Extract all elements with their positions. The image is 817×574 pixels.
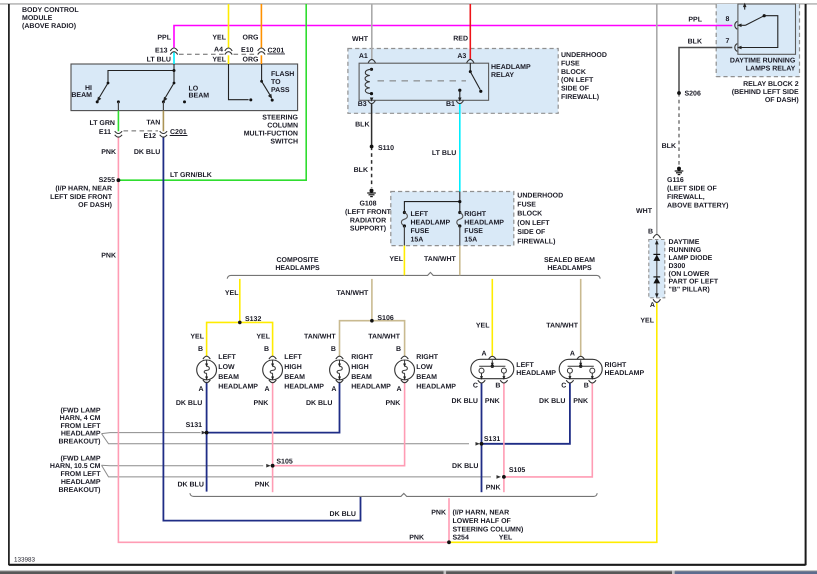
label LT BLU mid bbox=[432, 150, 456, 157]
svg-text:PNK: PNK bbox=[431, 510, 446, 517]
svg-text:BLK: BLK bbox=[688, 39, 702, 46]
svg-text:UNDERHOOD: UNDERHOOD bbox=[517, 192, 563, 199]
svg-text:ORG: ORG bbox=[243, 35, 260, 42]
splice S106 bbox=[370, 319, 374, 323]
label headlamp relay bbox=[491, 64, 531, 79]
label PNK right above bracket bbox=[486, 484, 501, 491]
svg-text:BLOCK: BLOCK bbox=[561, 69, 586, 76]
label PPL pin 8 bbox=[688, 16, 729, 24]
svg-text:DAYTIME RUNNING: DAYTIME RUNNING bbox=[730, 58, 796, 65]
svg-text:133983: 133983 bbox=[14, 557, 36, 564]
svg-text:BREAKOUT): BREAKOUT) bbox=[59, 486, 101, 494]
label YEL A4 bbox=[212, 35, 226, 64]
wire LT BLU below connector E13 bbox=[173, 52, 175, 64]
svg-text:BEAM: BEAM bbox=[284, 374, 305, 381]
svg-text:SIDE OF: SIDE OF bbox=[561, 86, 590, 93]
svg-text:(ABOVE RADIO): (ABOVE RADIO) bbox=[22, 22, 76, 30]
svg-text:HEADLAMP: HEADLAMP bbox=[61, 479, 101, 486]
wire YEL from diode A down to S254 bbox=[451, 303, 657, 542]
svg-text:LEFT: LEFT bbox=[516, 362, 534, 369]
svg-text:DK BLU: DK BLU bbox=[452, 463, 478, 470]
bulb left low beam headlamp bbox=[197, 356, 217, 383]
label underhood fuse block top bbox=[561, 52, 607, 101]
label HI BEAM bbox=[71, 85, 92, 99]
label PNK mid bbox=[101, 252, 116, 259]
svg-text:FUSE: FUSE bbox=[561, 60, 580, 67]
svg-text:RUNNING: RUNNING bbox=[669, 247, 702, 254]
svg-text:DK BLU: DK BLU bbox=[306, 400, 332, 407]
connector C201 cavity A4 bbox=[225, 48, 232, 55]
svg-text:SUPPORT): SUPPORT) bbox=[350, 225, 386, 233]
wire LT BLU from relay B1 to fuse block bbox=[459, 104, 461, 192]
wire RED to relay A3 bbox=[469, 4, 471, 59]
svg-text:B: B bbox=[198, 346, 203, 353]
svg-text:A: A bbox=[264, 386, 269, 393]
svg-text:PNK: PNK bbox=[254, 400, 269, 407]
splice S254 bbox=[447, 540, 451, 544]
label B1 bbox=[446, 101, 455, 108]
svg-text:(FWD LAMP: (FWD LAMP bbox=[60, 454, 100, 462]
splice S131 right bbox=[480, 442, 484, 446]
svg-text:15A: 15A bbox=[464, 237, 477, 244]
svg-text:RED: RED bbox=[453, 36, 468, 43]
svg-text:E13: E13 bbox=[155, 48, 168, 55]
wire PNK right low beam down to S105 line bbox=[273, 382, 405, 466]
label G108 left front radiator support bbox=[345, 201, 392, 233]
svg-text:TAN: TAN bbox=[146, 120, 160, 127]
svg-text:RIGHT: RIGHT bbox=[351, 354, 374, 361]
svg-text:BLOCK: BLOCK bbox=[517, 211, 542, 218]
connector C201 cavity E10 bbox=[258, 48, 265, 55]
svg-text:LT GRN/BLK: LT GRN/BLK bbox=[170, 171, 212, 179]
svg-text:LOWER HALF OF: LOWER HALF OF bbox=[453, 518, 512, 525]
label YEL to S132 bbox=[225, 290, 239, 297]
svg-text:S105: S105 bbox=[276, 458, 292, 465]
switch internal wire from LT BLU entry to HI/LO pivots bbox=[108, 64, 176, 83]
svg-text:PNK: PNK bbox=[485, 398, 500, 405]
wire DK BLU right sealed C down to right S131 bbox=[482, 383, 570, 444]
svg-text:WHT: WHT bbox=[352, 36, 369, 43]
svg-text:S131: S131 bbox=[484, 436, 500, 443]
wire DK BLU right high beam down to S131 line bbox=[207, 382, 340, 433]
svg-text:COMPOSITE: COMPOSITE bbox=[276, 257, 318, 264]
label steering column multi-fuction switch bbox=[244, 114, 299, 145]
hi beam switch arm bbox=[95, 82, 109, 104]
svg-text:HARN, 4 CM: HARN, 4 CM bbox=[60, 415, 101, 422]
svg-text:HEADLAMP: HEADLAMP bbox=[464, 220, 504, 227]
wire BLK from relay block 2 pin 7 to S206 then dashed to G116 bbox=[679, 48, 732, 166]
svg-text:BLK: BLK bbox=[662, 143, 676, 150]
svg-text:A1: A1 bbox=[359, 53, 368, 60]
daytime running lamps relay inner box bbox=[738, 4, 796, 54]
label S110 bbox=[378, 145, 394, 152]
label E11 bbox=[99, 129, 111, 136]
relay terminal B3 bbox=[368, 98, 375, 104]
svg-text:SEALED BEAM: SEALED BEAM bbox=[544, 257, 595, 264]
label DK BLU right mid bbox=[452, 463, 478, 470]
svg-text:YEL: YEL bbox=[225, 290, 239, 297]
svg-text:BEAM: BEAM bbox=[416, 374, 437, 381]
label I/P harn near left side front of dash bbox=[50, 184, 113, 209]
label C201 top bbox=[267, 48, 285, 55]
right headlamp fuse 15A bbox=[457, 211, 463, 228]
connector C201 cavity E13 bbox=[170, 48, 177, 55]
label E13 / LT BLU bbox=[147, 48, 171, 64]
label A1 bbox=[359, 53, 368, 60]
daytime running lamp diode pair bbox=[653, 240, 660, 298]
svg-text:C: C bbox=[473, 383, 478, 390]
daytime running lamp diode D300 box bbox=[649, 240, 665, 298]
svg-text:FIREWALL): FIREWALL) bbox=[517, 237, 555, 245]
label body control module bbox=[22, 7, 79, 30]
label left high beam headlamp bbox=[264, 346, 324, 393]
relay block 2 pin 7 terminal bbox=[735, 44, 737, 52]
svg-text:"B" PILLAR): "B" PILLAR) bbox=[669, 286, 710, 294]
label YEL under left fuse bbox=[389, 256, 403, 263]
svg-text:PART OF LEFT: PART OF LEFT bbox=[669, 279, 719, 286]
label composite headlamps bbox=[275, 257, 320, 272]
label DK BLU / PNK under composite bulbs bbox=[176, 400, 400, 407]
svg-text:TAN/WHT: TAN/WHT bbox=[304, 332, 336, 340]
label relay block 2 behind left side of dash bbox=[732, 81, 799, 104]
underhood fuse block (fuses) dashed box bbox=[391, 192, 514, 246]
label S131 right bbox=[484, 436, 500, 443]
label S106 bbox=[377, 315, 393, 322]
daytime running lamps relay switch bbox=[737, 3, 778, 50]
label E12 bbox=[144, 133, 157, 140]
svg-text:(LEFT FRONT: (LEFT FRONT bbox=[345, 208, 392, 216]
svg-text:PPL: PPL bbox=[688, 16, 702, 23]
svg-text:MULTI-FUCTION: MULTI-FUCTION bbox=[244, 131, 298, 138]
svg-text:HEADLAMP: HEADLAMP bbox=[61, 431, 101, 438]
label PNK above S254 bbox=[431, 510, 446, 517]
callout line to S105 right bbox=[102, 465, 501, 478]
label S132 bbox=[245, 316, 261, 323]
splice S206 bbox=[677, 91, 681, 95]
label fwd lamp harn 4 cm bbox=[59, 406, 102, 445]
svg-text:PNK: PNK bbox=[255, 481, 270, 488]
svg-text:YEL: YEL bbox=[212, 35, 226, 42]
svg-text:A4: A4 bbox=[214, 46, 223, 53]
relay coil bbox=[365, 68, 373, 95]
svg-text:OF DASH): OF DASH) bbox=[78, 201, 112, 209]
label daytime running lamp diode D300 bbox=[669, 239, 719, 293]
svg-text:S255: S255 bbox=[99, 177, 115, 184]
fuse block internal feed bbox=[404, 192, 461, 213]
label DK BLU PNK above bracket left bbox=[177, 481, 269, 488]
svg-text:HARN, 10.5 CM: HARN, 10.5 CM bbox=[50, 463, 101, 470]
label S206 bbox=[685, 91, 701, 98]
svg-text:7: 7 bbox=[726, 38, 730, 45]
label BLK above G108 bbox=[354, 167, 368, 174]
svg-text:TAN/WHT: TAN/WHT bbox=[424, 255, 456, 263]
wire ORG at connector E10 top bbox=[260, 4, 262, 48]
wire YEL harness to left sealed headlamp A bbox=[491, 279, 493, 356]
wire WHT to relay A1 bbox=[371, 4, 373, 59]
svg-text:8: 8 bbox=[726, 16, 730, 23]
steering column multi-function switch box bbox=[71, 64, 298, 111]
label right low beam headlamp bbox=[396, 346, 456, 393]
label S105 right bbox=[509, 467, 525, 474]
diode D300 terminal A bbox=[653, 299, 660, 302]
relay terminal B1 bbox=[456, 98, 463, 104]
label S131 left bbox=[186, 422, 202, 429]
svg-text:FIREWALL,: FIREWALL, bbox=[667, 194, 705, 201]
label PNK at S254 bbox=[409, 535, 424, 542]
label DK BLU / PNK under sealed lamps bbox=[452, 398, 588, 405]
label left headlamp fuse 15A bbox=[411, 211, 451, 244]
svg-text:RIGHT: RIGHT bbox=[605, 362, 628, 369]
bottom toolbar strip bbox=[0, 571, 817, 574]
wire DK BLU left low beam to S131 to bracket bbox=[206, 382, 208, 492]
svg-text:WHT: WHT bbox=[636, 208, 653, 215]
label TAN/WHT right sealed bbox=[546, 322, 578, 330]
label daytime running lamps relay bbox=[730, 58, 796, 73]
callout line to S105 left bbox=[102, 464, 271, 468]
svg-text:HEADLAMP: HEADLAMP bbox=[411, 220, 451, 227]
svg-text:PNK: PNK bbox=[409, 535, 424, 542]
splice S105 left bbox=[271, 464, 275, 468]
label BLK above G116 bbox=[662, 143, 676, 150]
svg-text:B: B bbox=[495, 383, 500, 390]
svg-text:A: A bbox=[650, 302, 655, 309]
label PPL bbox=[157, 35, 171, 42]
bulb right sealed headlamp bbox=[559, 356, 602, 383]
wire YEL at connector A4 top bbox=[228, 4, 230, 48]
flash-to-pass switch arm bbox=[260, 64, 274, 102]
svg-text:A: A bbox=[396, 386, 401, 393]
svg-text:HEADLAMP: HEADLAMP bbox=[351, 384, 391, 391]
wire PPL magenta from BCM to relay block 2 pin 8 bbox=[174, 26, 732, 48]
svg-text:FUSE: FUSE bbox=[464, 228, 483, 235]
label YEL left sealed bbox=[476, 323, 490, 330]
label underhood fuse block bottom bbox=[517, 192, 563, 245]
wire YEL harness to S132 bbox=[239, 279, 241, 323]
label YEL at S254 bbox=[499, 535, 513, 542]
svg-text:HEADLAMP: HEADLAMP bbox=[516, 370, 556, 377]
label BLK below B3 bbox=[355, 121, 369, 128]
svg-text:HIGH: HIGH bbox=[351, 364, 369, 371]
svg-text:BEAM: BEAM bbox=[351, 374, 372, 381]
svg-text:B: B bbox=[264, 346, 269, 353]
bulb left sealed headlamp bbox=[471, 356, 514, 383]
svg-text:MODULE: MODULE bbox=[22, 15, 53, 22]
composite/sealed harness top bracket bbox=[227, 272, 600, 278]
splice S105 right bbox=[502, 475, 506, 479]
svg-text:A3: A3 bbox=[457, 53, 466, 60]
wire TAN/WHT from right fuse to top bracket bbox=[459, 226, 461, 275]
svg-text:PNK: PNK bbox=[386, 400, 401, 407]
svg-text:DK BLU: DK BLU bbox=[134, 149, 160, 156]
svg-text:HEADLAMP: HEADLAMP bbox=[605, 370, 645, 377]
svg-text:B: B bbox=[396, 346, 401, 353]
label WHT above diode bbox=[636, 208, 653, 215]
svg-text:PNK: PNK bbox=[101, 149, 116, 156]
svg-text:S105: S105 bbox=[509, 467, 525, 474]
relay terminal A1 bbox=[368, 59, 375, 63]
label LO BEAM bbox=[189, 86, 210, 100]
svg-text:S110: S110 bbox=[378, 145, 394, 152]
svg-text:FIREWALL): FIREWALL) bbox=[561, 93, 599, 101]
svg-text:RADIATOR: RADIATOR bbox=[350, 217, 386, 224]
wire DK BLU from E12 down and over to bottom bracket bbox=[163, 137, 360, 520]
svg-text:B3: B3 bbox=[358, 101, 367, 108]
svg-text:SWITCH: SWITCH bbox=[270, 139, 298, 146]
headlamp relay inner box bbox=[359, 63, 489, 100]
svg-text:(ON LEFT: (ON LEFT bbox=[517, 219, 550, 227]
flash-to-pass yellow-side internal wire bbox=[229, 64, 253, 101]
label fwd lamp harn 10.5 cm bbox=[50, 454, 101, 494]
svg-text:YEL: YEL bbox=[499, 535, 513, 542]
svg-text:DAYTIME: DAYTIME bbox=[669, 239, 700, 246]
svg-text:(I/P HARN, NEAR: (I/P HARN, NEAR bbox=[55, 184, 112, 192]
wire PNK right sealed B down to right S105 bbox=[504, 383, 592, 477]
splice S110 bbox=[370, 145, 374, 149]
svg-text:S206: S206 bbox=[685, 91, 701, 98]
svg-text:B: B bbox=[331, 346, 336, 353]
relay block 2 dashed box bbox=[716, 4, 799, 77]
svg-text:ORG: ORG bbox=[243, 57, 260, 64]
diode D300 terminal B bbox=[653, 235, 660, 239]
lo beam switch arm bbox=[161, 82, 186, 104]
svg-text:LO: LO bbox=[189, 86, 199, 93]
svg-text:FUSE: FUSE bbox=[411, 228, 430, 235]
left headlamp fuse 15A bbox=[401, 211, 407, 228]
lo beam contact to TAN bbox=[162, 100, 165, 103]
wire PNK left sealed B through S105 to bracket bbox=[503, 383, 505, 492]
svg-text:A: A bbox=[198, 386, 203, 393]
svg-text:HEADLAMP: HEADLAMP bbox=[491, 64, 531, 71]
svg-text:15A: 15A bbox=[411, 237, 424, 244]
svg-text:LOW: LOW bbox=[218, 364, 235, 371]
svg-text:DK BLU: DK BLU bbox=[177, 481, 203, 488]
svg-text:FLASH: FLASH bbox=[271, 71, 294, 78]
svg-text:RIGHT: RIGHT bbox=[416, 354, 439, 361]
svg-text:A: A bbox=[570, 350, 575, 357]
bulb right low beam headlamp bbox=[395, 356, 415, 383]
wire YEL S132 branches to left low and left high headlamps bbox=[207, 322, 273, 356]
ground G108 bbox=[367, 189, 376, 197]
svg-text:B: B bbox=[584, 383, 589, 390]
svg-text:BLK: BLK bbox=[354, 167, 368, 174]
connector C201 cavity E12 bbox=[160, 131, 167, 137]
ground G116 bbox=[675, 167, 684, 175]
svg-text:B: B bbox=[648, 228, 653, 235]
svg-text:HEADLAMPS: HEADLAMPS bbox=[547, 265, 592, 272]
wire YEL from left fuse to top bracket bbox=[403, 226, 405, 275]
wire LT GRN vertical from top to S255 bbox=[119, 4, 306, 180]
svg-text:D300: D300 bbox=[669, 263, 686, 270]
label left headlamp bbox=[473, 350, 556, 389]
svg-text:PNK: PNK bbox=[101, 252, 116, 259]
label left low beam headlamp bbox=[198, 346, 258, 393]
bulb left high beam headlamp bbox=[263, 356, 283, 383]
svg-text:RELAY: RELAY bbox=[491, 72, 514, 79]
label RED relay A3 bbox=[453, 36, 468, 43]
svg-text:(FWD LAMP: (FWD LAMP bbox=[60, 406, 100, 414]
wire PNK left high beam through S105 to bracket bbox=[272, 382, 274, 492]
svg-text:LEFT: LEFT bbox=[218, 354, 236, 361]
svg-text:OF DASH): OF DASH) bbox=[765, 96, 799, 104]
label FLASH TO PASS bbox=[271, 71, 294, 94]
svg-text:(LEFT SIDE OF: (LEFT SIDE OF bbox=[667, 185, 718, 193]
svg-text:A: A bbox=[331, 386, 336, 393]
label diode terminal B bbox=[648, 228, 653, 235]
wire BLK from relay B3 to S110 then dashed to G108 bbox=[371, 104, 373, 188]
svg-text:FUSE: FUSE bbox=[517, 202, 536, 209]
label S105 left bbox=[276, 458, 292, 465]
label S255 bbox=[99, 177, 115, 184]
svg-text:LEFT SIDE FRONT: LEFT SIDE FRONT bbox=[50, 194, 113, 201]
svg-text:S132: S132 bbox=[245, 316, 261, 323]
svg-text:LT BLU: LT BLU bbox=[432, 150, 456, 157]
svg-text:LOW: LOW bbox=[416, 364, 433, 371]
svg-text:G108: G108 bbox=[359, 201, 376, 208]
label PNK below E11 bbox=[101, 149, 116, 156]
svg-text:TO: TO bbox=[271, 79, 281, 86]
callout line to S131 left bbox=[102, 431, 207, 435]
svg-text:PNK: PNK bbox=[486, 484, 501, 491]
svg-text:HIGH: HIGH bbox=[284, 364, 302, 371]
label G116 left side of firewall above battery bbox=[667, 177, 728, 210]
wire TAN from lo beam contact to E12 bbox=[162, 102, 164, 131]
relay block 2 pin 8 terminal bbox=[735, 21, 737, 29]
svg-text:DK BLU: DK BLU bbox=[330, 511, 356, 518]
label right high beam headlamp bbox=[331, 346, 391, 393]
svg-text:BEAM: BEAM bbox=[71, 92, 92, 99]
label B3 bbox=[358, 101, 367, 108]
svg-text:FROM LEFT: FROM LEFT bbox=[60, 423, 101, 430]
wire WHT to diode D300 terminal B bbox=[656, 4, 658, 235]
svg-text:A: A bbox=[481, 350, 486, 357]
relay actuation dashed link bbox=[378, 80, 467, 82]
svg-text:E12: E12 bbox=[144, 133, 157, 140]
svg-text:E10: E10 bbox=[241, 47, 254, 54]
svg-text:RELAY BLOCK 2: RELAY BLOCK 2 bbox=[743, 81, 799, 88]
svg-text:DK BLU: DK BLU bbox=[539, 398, 565, 405]
wire DK BLU left sealed C through S131 to bracket bbox=[481, 383, 483, 492]
svg-text:BREAKOUT): BREAKOUT) bbox=[59, 438, 101, 446]
wire PNK harness drop to S254 bbox=[448, 498, 450, 542]
svg-text:RIGHT: RIGHT bbox=[464, 211, 487, 218]
svg-text:YEL: YEL bbox=[640, 317, 654, 324]
harness bottom bracket bbox=[190, 493, 597, 496]
svg-text:FROM LEFT: FROM LEFT bbox=[60, 471, 101, 478]
underhood fuse block (relay) dashed box bbox=[348, 49, 558, 114]
svg-text:C: C bbox=[561, 383, 566, 390]
wire LT GRN from hi beam contact to E11 bbox=[117, 102, 119, 131]
svg-text:TAN/WHT: TAN/WHT bbox=[546, 322, 578, 330]
svg-text:G116: G116 bbox=[667, 177, 684, 184]
wire YEL below connector A4 bbox=[228, 55, 230, 64]
svg-text:TAN/WHT: TAN/WHT bbox=[337, 289, 369, 297]
C201 dashed link line row 2 bbox=[124, 130, 159, 132]
label YEL branches of S132 bbox=[190, 333, 270, 340]
svg-text:UNDERHOOD: UNDERHOOD bbox=[561, 52, 607, 59]
svg-text:TAN/WHT: TAN/WHT bbox=[368, 332, 400, 340]
label YEL below diode bbox=[640, 317, 654, 324]
svg-text:LEFT: LEFT bbox=[284, 354, 302, 361]
splice S131 left bbox=[205, 431, 209, 435]
svg-text:LAMP DIODE: LAMP DIODE bbox=[669, 255, 713, 262]
svg-text:LT BLU: LT BLU bbox=[147, 57, 171, 64]
label DK BLU bottom mid bbox=[330, 511, 356, 518]
label I/P harn near lower half of steering column bbox=[453, 509, 524, 542]
svg-text:PNK: PNK bbox=[573, 398, 588, 405]
svg-text:LAMPS RELAY: LAMPS RELAY bbox=[746, 66, 796, 73]
svg-text:YEL: YEL bbox=[256, 333, 270, 340]
label ORG E10 bbox=[241, 35, 259, 64]
